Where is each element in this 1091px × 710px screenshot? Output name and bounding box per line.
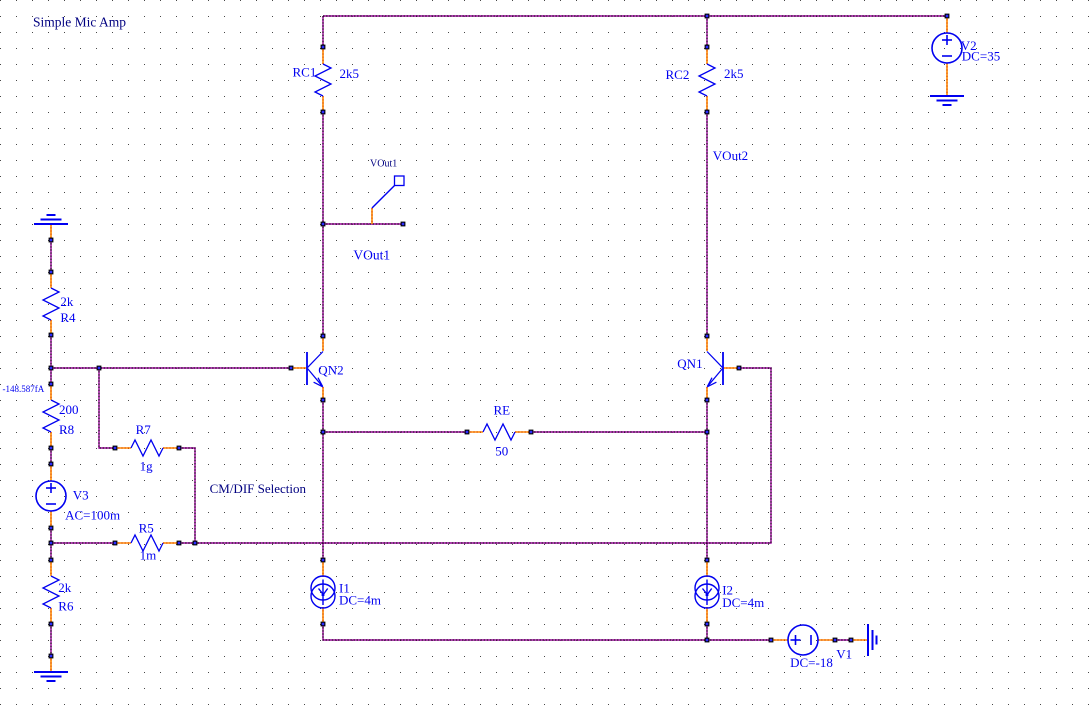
- svg-text:DC=4m: DC=4m: [339, 593, 381, 608]
- svg-text:DC=35: DC=35: [962, 49, 1000, 64]
- svg-text:R5: R5: [139, 521, 154, 536]
- svg-text:2k5: 2k5: [340, 66, 360, 81]
- svg-text:AC=100m: AC=100m: [65, 508, 120, 523]
- svg-text:V3: V3: [73, 488, 89, 503]
- svg-text:Simple Mic Amp: Simple Mic Amp: [33, 15, 126, 30]
- svg-text:50: 50: [495, 444, 508, 459]
- svg-text:DC=-18: DC=-18: [790, 655, 833, 670]
- svg-text:R6: R6: [58, 599, 74, 614]
- svg-text:2k: 2k: [58, 580, 72, 595]
- svg-text:QN1: QN1: [677, 356, 702, 371]
- svg-text:R7: R7: [136, 422, 152, 437]
- svg-text:RC1: RC1: [293, 65, 317, 80]
- svg-text:CM/DIF Selection: CM/DIF Selection: [210, 481, 307, 496]
- svg-text:1m: 1m: [140, 548, 157, 563]
- svg-text:R4: R4: [60, 310, 76, 325]
- svg-text:-148.587fA: -148.587fA: [3, 384, 45, 394]
- svg-text:200: 200: [59, 402, 79, 417]
- svg-text:VOut2: VOut2: [713, 148, 748, 163]
- svg-text:2k: 2k: [60, 294, 74, 309]
- svg-text:QN2: QN2: [318, 363, 343, 378]
- svg-text:VOut1: VOut1: [370, 159, 397, 170]
- svg-text:2k5: 2k5: [724, 66, 744, 81]
- svg-text:VOut1: VOut1: [353, 248, 390, 263]
- svg-text:DC=4m: DC=4m: [722, 595, 764, 610]
- svg-text:1g: 1g: [140, 459, 154, 474]
- svg-text:RE: RE: [494, 403, 511, 418]
- svg-text:R8: R8: [59, 422, 74, 437]
- svg-text:RC2: RC2: [666, 67, 690, 82]
- svg-text:V1: V1: [836, 647, 852, 662]
